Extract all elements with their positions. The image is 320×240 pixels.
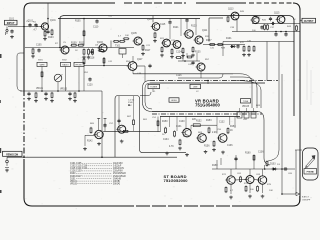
ground G28: [5, 169, 9, 173]
svg-text:SW1: SW1: [38, 60, 44, 62]
junction j91b: [57, 90, 59, 92]
svg-text:R158: R158: [212, 165, 218, 167]
vert feed x177: [176, 117, 178, 132]
resistor R2: [51, 29, 53, 36]
ground G31: [261, 195, 265, 199]
wire Q10 down: [236, 20, 238, 32]
resistor R43: [179, 139, 181, 146]
ground G5: [87, 56, 91, 60]
svg-text:C120: C120: [87, 85, 93, 87]
svg-text:47K: 47K: [240, 42, 244, 44]
vert feed x186: [185, 117, 187, 129]
junction jrem: [23, 156, 25, 158]
resistor R1: [44, 30, 46, 37]
capacitor C20: [283, 167, 287, 170]
svg-text:VR103: VR103: [60, 89, 68, 91]
capacitor C23: [117, 119, 120, 123]
wire vr arcs right: [223, 74, 252, 108]
junction j60: [59, 47, 61, 49]
wire y61: [178, 60, 200, 62]
wire outer top-right corner: [293, 3, 300, 10]
stub connector B: [104, 117, 107, 119]
ground G27: [204, 150, 208, 154]
transistor Q7: [172, 41, 181, 49]
resistor R5: [77, 44, 84, 46]
ground G17: [73, 99, 77, 103]
resistor R41: [174, 130, 176, 137]
svg-text:R105: R105: [75, 21, 81, 23]
resistor R26: [264, 24, 266, 31]
wire tuner drop: [152, 89, 154, 92]
boxed label INPUT: [5, 20, 18, 25]
svg-text:INPUT: INPUT: [7, 21, 15, 25]
boxed label OUTPUT: [302, 18, 316, 23]
wire y31.5 rail: [232, 31, 300, 33]
ground G7: [153, 39, 157, 43]
wire st boundary rail2: [152, 113, 262, 115]
scan artifact edge marks: [0, 54, 2, 193]
boxed label SW2: [61, 62, 71, 66]
transistor Q15: [93, 130, 103, 138]
resistor R40: [165, 127, 167, 134]
junction j91a: [41, 90, 43, 92]
vert x208: [207, 81, 209, 85]
capacitor C8: [236, 44, 239, 48]
svg-text:REMOCON: REMOCON: [6, 154, 18, 156]
wire x119 drop: [118, 96, 120, 125]
capacitor C22: [103, 123, 106, 127]
svg-text:R131: R131: [255, 18, 261, 20]
wire white box top: [209, 17, 223, 19]
svg-text:D101: D101: [226, 38, 232, 40]
transistor Q6: [161, 39, 170, 47]
ground G27b: [221, 151, 225, 155]
ground G21: [97, 142, 101, 146]
wire Q12 emitter rail y74: [132, 70, 134, 73]
capacitor C1: [10, 29, 13, 33]
resistor R31: [83, 58, 85, 65]
svg-text:R103: R103: [48, 37, 54, 39]
transistor Q12: [127, 62, 137, 71]
vert feed bx254: [253, 155, 255, 169]
resistor R25: [296, 25, 298, 32]
svg-text:OUTPUT: OUTPUT: [304, 20, 314, 23]
ground G30: [248, 195, 252, 199]
svg-text:C118: C118: [89, 58, 95, 60]
svg-text:10K: 10K: [180, 58, 184, 60]
svg-text:Q115: Q115: [274, 13, 280, 15]
svg-text:R160: R160: [245, 153, 251, 155]
resistor R22: [248, 45, 250, 52]
boxed label SW1: [37, 62, 47, 66]
resistor R9: [113, 40, 120, 42]
capacitor C18: [191, 61, 194, 65]
ground G16: [68, 97, 72, 101]
wire mid right rail: [203, 44, 245, 46]
wire bus x279: [278, 42, 280, 151]
capacitor C11b: [269, 17, 272, 21]
ground G14b: [27, 97, 31, 101]
resistor R27: [267, 24, 269, 31]
wire vr bus solid: [150, 82, 265, 84]
wire into jack: [295, 149, 302, 151]
svg-text:Q111: Q111: [202, 30, 208, 32]
wire bus x279 bottom curve: [268, 150, 279, 161]
resistor R16: [171, 48, 173, 55]
ground G2: [43, 37, 47, 41]
ground G15: [50, 99, 54, 103]
resistor R18: [192, 46, 194, 53]
resistor R17: [182, 47, 184, 54]
resistor R46: [227, 127, 229, 134]
transistor Q3: [98, 44, 108, 52]
capacitor C12: [260, 25, 263, 29]
wire inner rail left corner: [60, 16, 66, 48]
svg-text:TAPE: TAPE: [39, 64, 45, 67]
vert feed x235: [234, 117, 236, 129]
transistor Q18: [217, 134, 227, 143]
wire y78: [178, 77, 201, 79]
capacitor C7: [185, 18, 188, 22]
wire bottom border: [32, 205, 120, 207]
transistor Q4: [133, 37, 143, 45]
vert feed bx217: [216, 160, 218, 169]
resistor R21: [243, 45, 245, 52]
wire remocon rail: [7, 156, 177, 158]
resistor R29: [51, 92, 53, 99]
capacitor C3: [34, 23, 37, 27]
vert feed x160.6: [160, 117, 162, 132]
svg-text:R156: R156: [204, 146, 210, 148]
vertical feed x84: [83, 19, 85, 46]
svg-text:VR105: VR105: [242, 106, 250, 108]
wire sw2 down: [65, 67, 67, 92]
vertical feed x223: [222, 42, 224, 57]
svg-text:4.7K: 4.7K: [169, 146, 174, 148]
box preamp enclosure top: [115, 96, 140, 100]
wire base Q12: [84, 65, 128, 67]
svg-text:LEVEL: LEVEL: [171, 100, 178, 102]
boxed label REMOCON: [3, 151, 23, 156]
svg-text:C115: C115: [160, 24, 166, 26]
resistor R15: [161, 46, 163, 53]
transistor Q19: [225, 176, 235, 184]
junction jb3: [264, 168, 266, 170]
junction j3: [285, 31, 287, 33]
svg-text:RADIO: RADIO: [62, 64, 69, 67]
vert x221 upper: [220, 158, 222, 165]
wire bus x282 to eject: [281, 171, 283, 194]
wire y194 eject: [282, 193, 296, 195]
boxed label SW3: [74, 62, 84, 66]
junction j61: [184, 60, 186, 62]
wire inner top rail: [66, 15, 288, 17]
wire x84 down: [83, 64, 85, 67]
resistor R7: [88, 48, 90, 55]
resistor R52: [257, 185, 259, 192]
svg-text:R153: R153: [206, 120, 212, 122]
capacitor C4: [37, 48, 40, 52]
svg-text:C136: C136: [258, 152, 264, 154]
svg-text:2SA1015GR: 2SA1015GR: [113, 175, 126, 178]
svg-text:751G054000: 751G054000: [195, 103, 220, 108]
wire st bus right corner: [258, 112, 270, 166]
vert x183: [182, 53, 184, 61]
svg-text:751G052000: 751G052000: [164, 178, 189, 183]
diode D2: [272, 168, 278, 171]
ground G20: [83, 147, 87, 151]
wire outer top-left corner: [24, 3, 31, 10]
resistor R53: [266, 160, 268, 166]
ground G24: [212, 148, 216, 152]
wire bottom-left corner: [24, 198, 32, 206]
svg-text:T101: T101: [115, 46, 121, 48]
svg-text:C110: C110: [93, 27, 99, 29]
wire inner rail right corner: [288, 16, 294, 117]
plug icon: [306, 156, 316, 169]
svg-text:VR105: VR105: [70, 183, 78, 185]
svg-text:R150: R150: [162, 121, 168, 123]
resistor R38: [90, 127, 92, 134]
wire Q1 collector to rail: [47, 3, 49, 30]
ground G12: [242, 53, 246, 57]
svg-text:PHONO: PHONO: [75, 65, 83, 67]
boxed label TUNER: [148, 84, 160, 88]
wire left border vertical: [23, 10, 25, 90]
svg-text:EJECT: EJECT: [302, 197, 310, 199]
resistor R45: [213, 140, 215, 147]
svg-text:Q113: Q113: [228, 9, 234, 11]
wire feedback loop: [191, 124, 217, 126]
wire left loop: [17, 56, 22, 91]
svg-text:PHONE: PHONE: [307, 172, 315, 174]
vertical feed x170: [169, 19, 171, 21]
resistor R8: [92, 48, 94, 55]
ground G9: [170, 55, 174, 59]
stub connector A: [97, 117, 100, 119]
resistor R11: [123, 38, 130, 40]
resistor R36: [133, 119, 135, 126]
resistor R28b: [35, 92, 37, 99]
vr pots cluster: [237, 108, 256, 118]
transistor Q1: [40, 23, 49, 30]
svg-text:C124: C124: [176, 52, 182, 54]
wire st boundary rail3: [160, 116, 240, 118]
wire bus x282: [281, 74, 283, 171]
wire q19 row: [235, 179, 246, 182]
resistor R12: [142, 44, 144, 51]
svg-text:R121: R121: [173, 27, 179, 29]
svg-text:Q117: Q117: [137, 59, 143, 61]
svg-text:Q105: Q105: [131, 33, 137, 35]
wire bottom right border notch: [294, 196, 300, 206]
transistor Q10: [230, 12, 239, 20]
capacitor C2b: [46, 30, 49, 34]
wire output stub: [300, 20, 302, 22]
wire sw3 down: [78, 67, 80, 92]
svg-text:R109: R109: [71, 43, 77, 45]
vert x187: [186, 53, 188, 57]
vertical feed x196: [195, 19, 197, 36]
capacitor C5: [95, 19, 98, 23]
capacitor C10: [284, 32, 287, 36]
ground G6: [141, 52, 145, 56]
transistor Q17: [196, 134, 206, 143]
junction j1: [275, 31, 277, 33]
svg-text:R117: R117: [145, 50, 151, 52]
svg-text:Q101: Q101: [50, 20, 56, 22]
svg-text:R127: R127: [206, 40, 212, 42]
resistor R14: [154, 32, 156, 39]
wire y95 link: [140, 92, 151, 96]
boxed label TONE: [241, 99, 251, 103]
ground G10: [181, 54, 185, 58]
svg-text:C132: C132: [219, 122, 225, 124]
wire right border vertical: [299, 10, 301, 199]
ground G4: [82, 56, 86, 60]
transistor Q13: [196, 63, 206, 71]
wire vr bus lower corner: [143, 102, 153, 112]
svg-text:C131: C131: [176, 126, 182, 128]
svg-text:R152: R152: [196, 121, 202, 123]
wire Q12 collector: [132, 56, 134, 62]
boxed label PHONE: [304, 169, 317, 175]
svg-text:C.D 51: C.D 51: [128, 100, 135, 102]
boxed label LINE: [190, 84, 201, 88]
wire mid cross y131: [103, 130, 160, 132]
wire sw1 down: [41, 67, 43, 92]
wire outer top border: [31, 2, 115, 4]
transistor Q21: [257, 176, 267, 184]
resistor R37: [122, 130, 129, 132]
svg-text:10K: 10K: [269, 190, 273, 192]
resistor R20: [217, 44, 224, 46]
vertical feed x187: [186, 23, 188, 29]
svg-text:10K: 10K: [125, 35, 129, 37]
junction j91c: [78, 90, 80, 92]
boxed label LEVEL: [169, 98, 179, 102]
extra labels cluster: [26, 11, 296, 192]
svg-text:C136: C136: [227, 145, 233, 147]
wire Q3 collector up: [110, 41, 112, 48]
resistor R10: [119, 40, 126, 42]
vert feed x169.5: [169, 117, 171, 128]
vertical feed x153: [152, 16, 154, 23]
box preamp left edge: [114, 99, 116, 157]
resistor R48: [253, 154, 255, 161]
wire bottom rail y169: [212, 168, 295, 170]
ground G26: [185, 153, 189, 157]
transistor Q20: [245, 176, 255, 184]
svg-text:R123: R123: [191, 26, 197, 28]
resistor R13: [83, 30, 85, 37]
svg-text:VR101: VR101: [36, 88, 44, 90]
resistor R3: [32, 48, 34, 55]
junction j80: [207, 80, 209, 82]
resistor R28: [41, 71, 43, 78]
wire corner to y73.8: [201, 74, 223, 78]
wire second stage rail: [25, 47, 134, 49]
capacitor C6: [168, 20, 171, 24]
capacitor C13b: [27, 92, 30, 96]
resistor R33: [103, 57, 105, 64]
ground G8: [160, 54, 164, 58]
junction x102 end: [101, 156, 103, 158]
svg-text:C130: C130: [179, 121, 185, 123]
resistor R34: [175, 57, 181, 59]
transistor Q8: [183, 30, 193, 38]
resistor R6: [83, 48, 85, 55]
ground G3: [31, 55, 35, 59]
wire x85 down: [84, 135, 86, 146]
wire upper right rail: [223, 41, 294, 43]
ground G29: [229, 196, 233, 200]
wire Q12 right: [137, 65, 145, 67]
junction jb2: [281, 193, 283, 195]
svg-text:C126: C126: [176, 75, 182, 77]
jack J2 remocon: [5, 157, 9, 167]
resistor R23: [253, 45, 255, 52]
wire x104 vert: [103, 57, 105, 66]
svg-text:R142: R142: [87, 141, 93, 143]
capacitor C9: [274, 32, 277, 36]
svg-text:D103: D103: [270, 164, 276, 166]
resistor R49: [240, 176, 242, 183]
transistor Q11: [276, 16, 285, 24]
variable resistor VR1: [54, 74, 62, 91]
box preamp right edge to wire: [140, 99, 186, 153]
junction j65: [103, 65, 105, 67]
junction j2: [280, 31, 282, 33]
capacitor C16: [148, 64, 151, 68]
component box T1: [119, 49, 126, 59]
transistor Q10b: [250, 16, 259, 23]
svg-text:R135: R135: [195, 52, 201, 54]
capacitor C15: [90, 50, 93, 54]
wire x145 down: [144, 66, 146, 82]
ground G25: [165, 152, 169, 156]
capacitor C13: [44, 92, 47, 96]
svg-text:1K: 1K: [230, 130, 233, 132]
transistor Q9: [194, 36, 204, 44]
transistor Q2: [60, 46, 70, 54]
capacitor C17: [88, 77, 91, 81]
legend parts list: [70, 163, 126, 185]
ground G1: [10, 35, 14, 39]
resistor R32: [98, 50, 105, 52]
svg-text:TONE: TONE: [243, 101, 249, 103]
capacitor C14: [68, 92, 71, 96]
svg-text:ON/OFF: ON/OFF: [302, 199, 311, 201]
junction boxdot: [128, 104, 130, 106]
wire mid-left rail y91: [20, 90, 102, 92]
wire input line: [8, 26, 38, 28]
wire second rail: [58, 18, 200, 20]
resistor R47: [157, 120, 159, 127]
svg-text:C134: C134: [163, 139, 169, 141]
transistor Q14: [116, 125, 126, 133]
wire vr bus left corner: [143, 81, 151, 103]
ground G11: [191, 54, 195, 58]
svg-text:J101: J101: [9, 19, 15, 21]
resistor R50: [225, 186, 227, 193]
junction jb1: [281, 168, 283, 170]
resistor R19: [209, 44, 216, 46]
svg-text:50K(A): 50K(A): [113, 182, 120, 185]
wire bottom-right corner: [293, 199, 300, 206]
ground G18: [120, 140, 124, 144]
transistor Q5: [151, 23, 160, 31]
